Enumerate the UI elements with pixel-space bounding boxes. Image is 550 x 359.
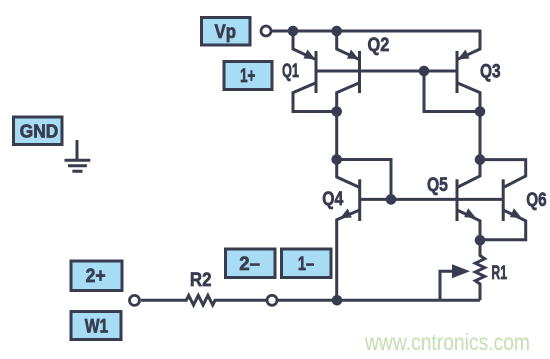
svg-text:1+: 1+ [240, 66, 255, 87]
svg-text:www.cntronics.com: www.cntronics.com [364, 329, 530, 355]
svg-text:R2: R2 [190, 270, 212, 291]
svg-text:1–: 1– [298, 254, 314, 275]
svg-text:GND: GND [20, 121, 59, 142]
svg-text:Vp: Vp [215, 22, 237, 43]
svg-text:Q6: Q6 [526, 190, 546, 211]
svg-text:Q3: Q3 [480, 61, 501, 82]
svg-text:Q4: Q4 [322, 189, 343, 210]
svg-text:Q1: Q1 [282, 61, 299, 82]
svg-text:R1: R1 [491, 263, 507, 284]
svg-text:2+: 2+ [86, 266, 106, 287]
svg-text:Q2: Q2 [368, 35, 390, 56]
svg-text:W1: W1 [85, 316, 109, 337]
svg-text:Q5: Q5 [427, 175, 448, 196]
svg-text:2–: 2– [239, 254, 260, 275]
